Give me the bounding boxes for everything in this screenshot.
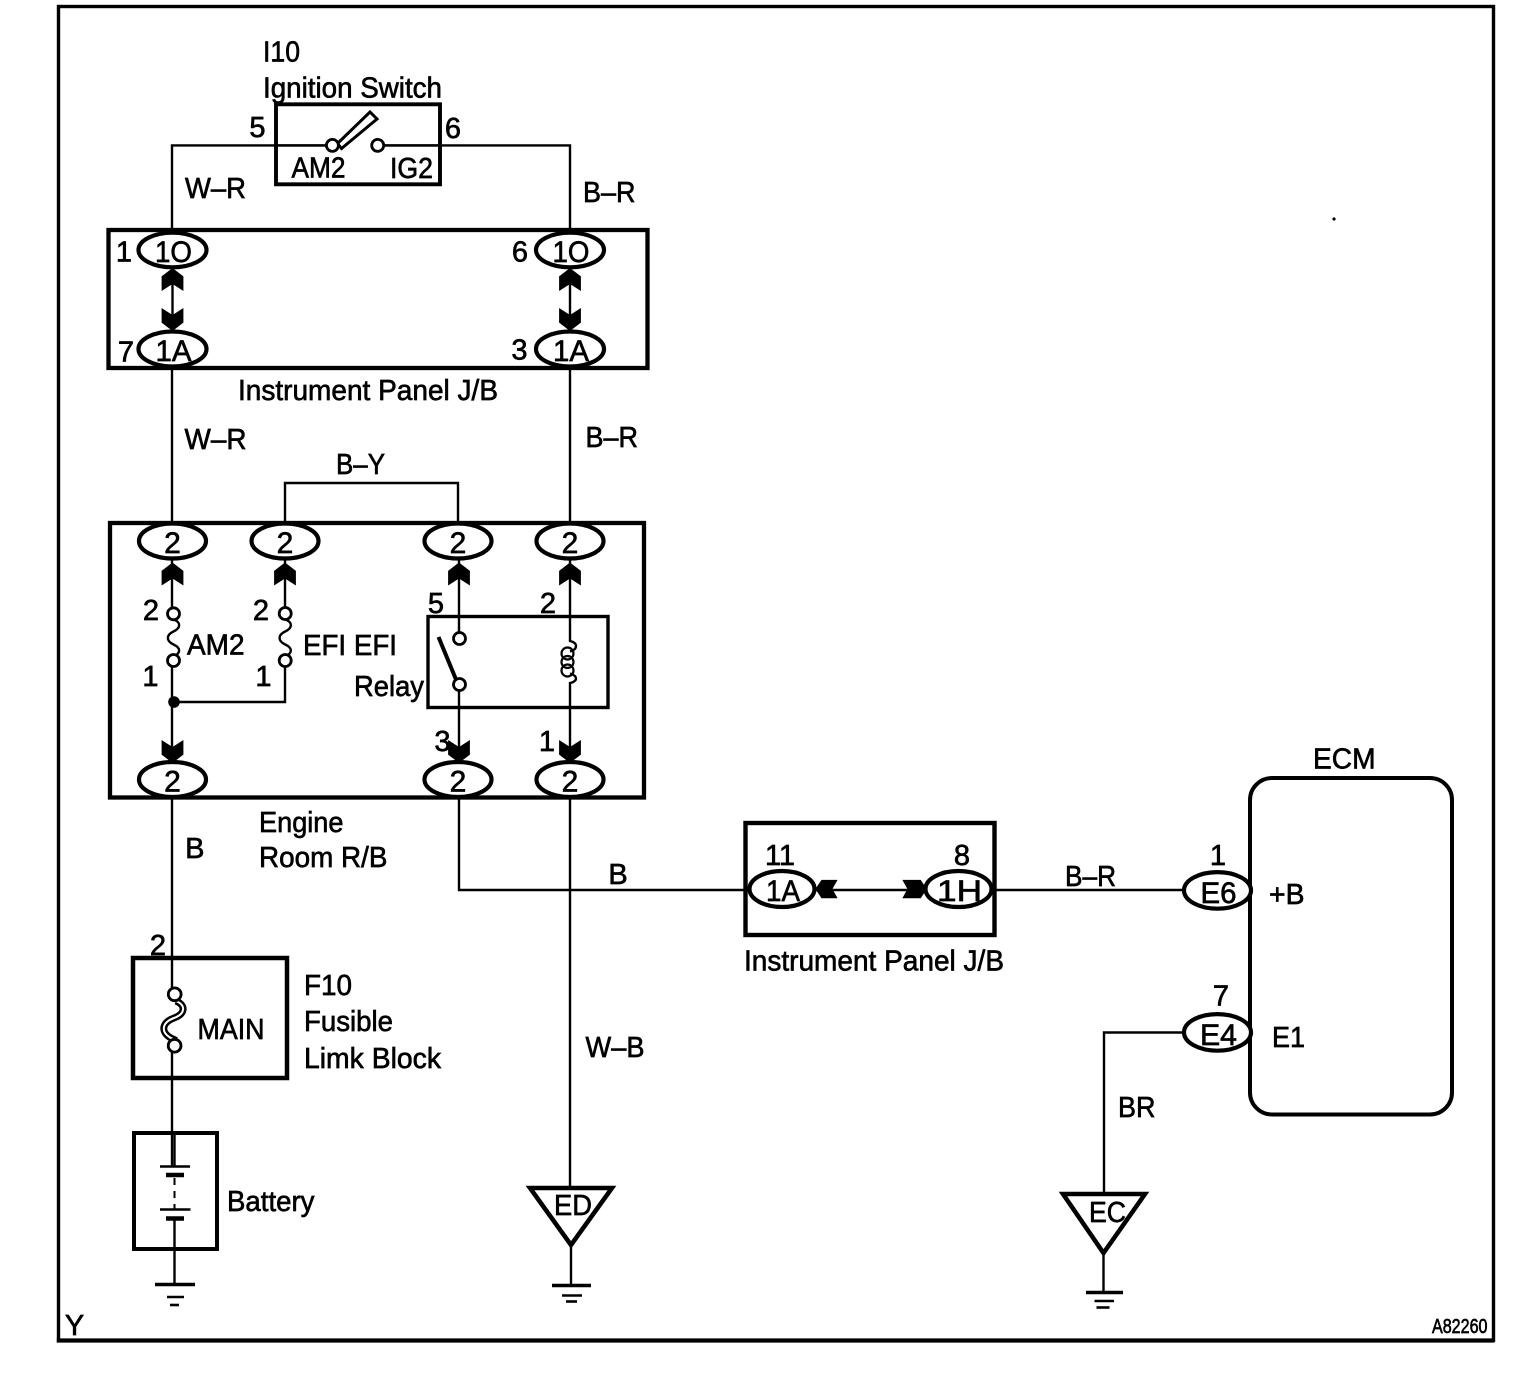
svg-text:1O: 1O <box>553 236 590 269</box>
svg-text:8: 8 <box>954 840 970 872</box>
svg-text:MAIN: MAIN <box>198 1014 265 1046</box>
svg-text:E4: E4 <box>1200 1019 1237 1052</box>
svg-text:2: 2 <box>277 527 294 560</box>
svg-text:E1: E1 <box>1272 1022 1305 1054</box>
svg-text:W–R: W–R <box>185 173 246 205</box>
svg-text:B–R: B–R <box>586 422 639 454</box>
svg-text:Room R/B: Room R/B <box>259 842 388 874</box>
svg-text:1: 1 <box>255 661 271 693</box>
svg-text:W–R: W–R <box>185 424 247 456</box>
svg-text:EFI EFI: EFI EFI <box>303 630 397 662</box>
svg-text:E6: E6 <box>1201 877 1237 910</box>
svg-text:Fusible: Fusible <box>304 1006 393 1038</box>
svg-text:2: 2 <box>164 527 181 560</box>
svg-text:Ignition Switch: Ignition Switch <box>263 73 442 105</box>
svg-text:5: 5 <box>428 588 444 620</box>
svg-text:1: 1 <box>539 726 555 758</box>
svg-text:1O: 1O <box>155 236 192 269</box>
svg-text:5: 5 <box>249 112 265 144</box>
svg-text:B: B <box>608 859 627 891</box>
svg-text:+B: +B <box>1269 879 1305 911</box>
svg-text:1: 1 <box>142 661 158 693</box>
svg-text:B–R: B–R <box>583 177 636 209</box>
svg-text:1A: 1A <box>156 335 192 368</box>
svg-text:3: 3 <box>511 335 527 367</box>
svg-text:IG2: IG2 <box>390 153 433 185</box>
svg-text:BR: BR <box>1118 1092 1156 1124</box>
svg-text:B–Y: B–Y <box>336 449 385 481</box>
svg-text:W–B: W–B <box>586 1032 645 1064</box>
svg-text:7: 7 <box>118 337 134 369</box>
svg-text:2: 2 <box>164 766 181 799</box>
svg-text:Battery: Battery <box>227 1186 315 1218</box>
svg-text:2: 2 <box>562 527 579 560</box>
svg-text:2: 2 <box>150 930 166 962</box>
svg-text:6: 6 <box>512 237 528 269</box>
svg-text:AM2: AM2 <box>292 153 346 185</box>
svg-text:2: 2 <box>253 595 269 627</box>
svg-text:ECM: ECM <box>1313 744 1376 776</box>
svg-text:2: 2 <box>540 588 556 620</box>
svg-text:1A: 1A <box>553 335 589 368</box>
svg-text:EC: EC <box>1089 1197 1126 1229</box>
svg-text:Instrument Panel J/B: Instrument Panel J/B <box>238 375 498 407</box>
svg-text:1H: 1H <box>937 875 982 908</box>
svg-text:B: B <box>185 833 204 865</box>
svg-text:1: 1 <box>116 237 132 269</box>
svg-text:B–R: B–R <box>1065 861 1116 893</box>
svg-text:1A: 1A <box>766 875 800 908</box>
svg-text:1: 1 <box>1210 840 1226 872</box>
svg-text:2: 2 <box>143 595 159 627</box>
svg-text:2: 2 <box>450 766 467 799</box>
svg-text:2: 2 <box>450 527 467 560</box>
svg-text:A82260: A82260 <box>1432 1316 1488 1338</box>
svg-text:Limk Block: Limk Block <box>304 1043 441 1075</box>
svg-text:F10: F10 <box>304 970 352 1002</box>
svg-text:Instrument Panel J/B: Instrument Panel J/B <box>744 946 1004 978</box>
svg-text:Y: Y <box>65 1310 84 1342</box>
svg-text:AM2: AM2 <box>187 630 245 662</box>
svg-text:7: 7 <box>1213 981 1229 1013</box>
svg-text:Engine: Engine <box>259 807 344 839</box>
svg-text:I10: I10 <box>263 37 300 69</box>
svg-text:ED: ED <box>554 1190 592 1222</box>
svg-text:6: 6 <box>445 113 461 145</box>
svg-text:2: 2 <box>562 766 579 799</box>
svg-text:11: 11 <box>765 840 795 872</box>
svg-text:3: 3 <box>434 726 450 758</box>
svg-text:Relay: Relay <box>354 671 424 703</box>
